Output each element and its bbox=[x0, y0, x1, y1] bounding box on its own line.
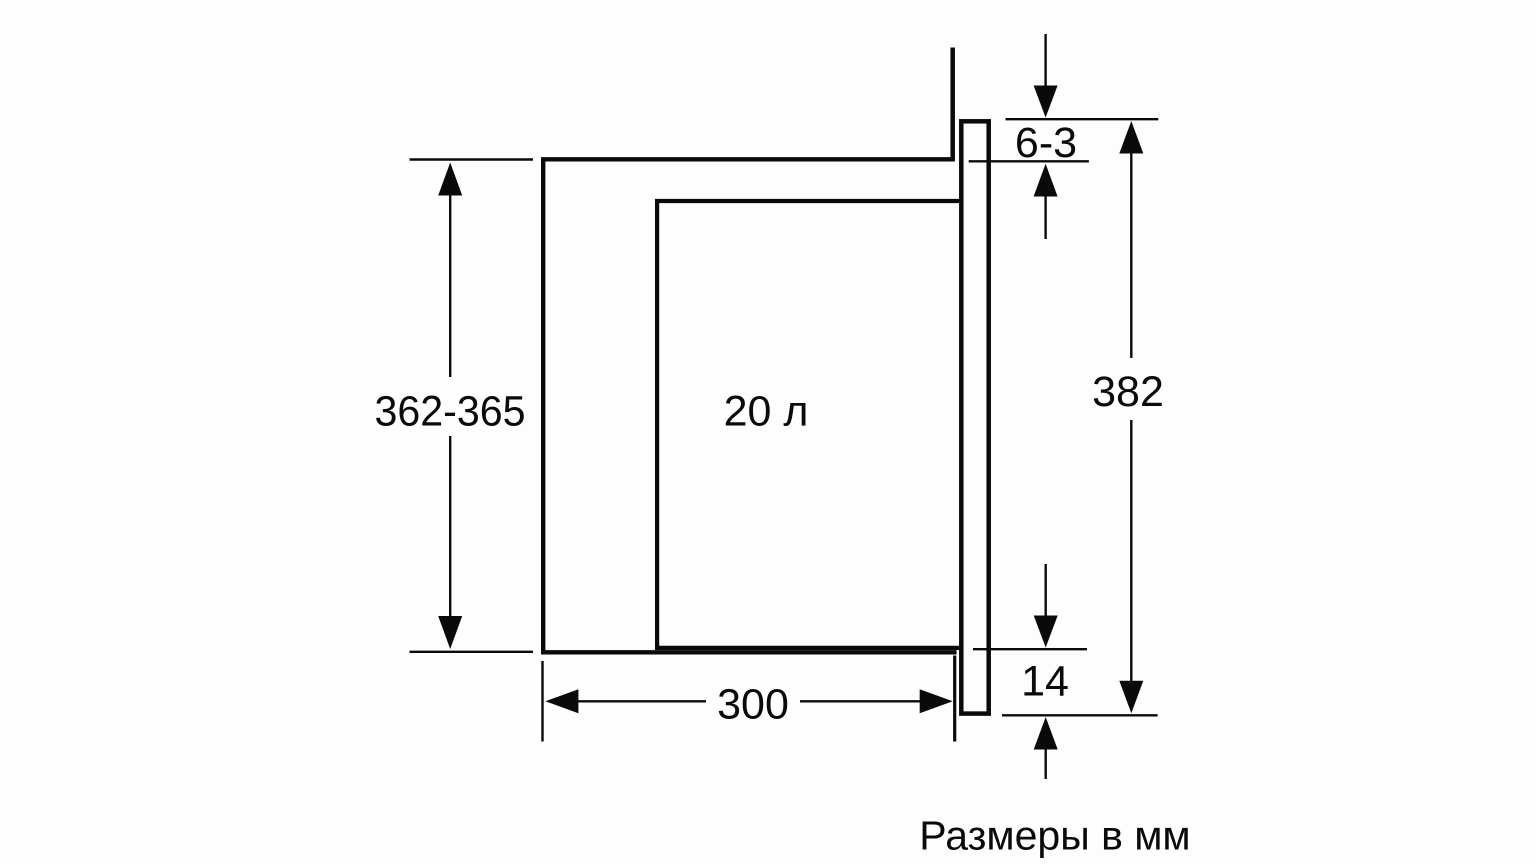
niche outline (outer box) bbox=[543, 159, 956, 652]
svg-text:300: 300 bbox=[717, 681, 789, 729]
svg-text:Размеры в мм: Размеры в мм bbox=[919, 813, 1190, 859]
reference line 14 bottom bbox=[1002, 714, 1158, 716]
svg-text:20 л: 20 л bbox=[724, 388, 809, 436]
svg-text:14: 14 bbox=[1021, 658, 1069, 706]
reference line 6-3 bottom bbox=[969, 160, 1089, 162]
arrow 14 bottom shaft bbox=[1044, 749, 1046, 779]
arrowhead 300 left bbox=[545, 689, 578, 713]
arrow 14 top shaft bbox=[1044, 564, 1046, 616]
arrow 6-3 bottom shaft bbox=[1044, 196, 1046, 239]
dimension line 362-365 lower shaft bbox=[449, 436, 451, 619]
extension line 300 left bbox=[541, 661, 543, 742]
dimension line 300 right shaft bbox=[800, 700, 921, 702]
svg-text:6-3: 6-3 bbox=[1015, 119, 1077, 167]
dimension line 382 upper shaft bbox=[1130, 153, 1132, 358]
dimension line 362-365 upper shaft bbox=[449, 193, 451, 377]
svg-text:362-365: 362-365 bbox=[375, 388, 526, 436]
arrowhead 362-365 down bbox=[438, 616, 462, 649]
tick bottom-left (362-365 lower reference) bbox=[410, 651, 534, 653]
arrowhead 300 right bbox=[920, 689, 953, 713]
arrowhead 382 up bbox=[1119, 121, 1143, 154]
svg-text:382: 382 bbox=[1092, 368, 1164, 416]
arrowhead 6-3 top down bbox=[1034, 86, 1058, 118]
cavity outline (inner box, 20 L oven) bbox=[657, 201, 963, 648]
dimension line 300 left shaft bbox=[577, 700, 706, 702]
arrowhead 382 down bbox=[1119, 681, 1143, 714]
arrowhead 362-365 up bbox=[438, 163, 462, 196]
arrowhead 14 down bbox=[1034, 616, 1058, 648]
tick top-left (362-365 upper reference) bbox=[410, 158, 534, 160]
arrowhead 6-3 bottom up bbox=[1034, 164, 1058, 197]
arrowhead 14 up bbox=[1034, 717, 1058, 750]
arrow 6-3 top shaft bbox=[1044, 34, 1046, 87]
reference line 14 top bbox=[973, 648, 1087, 650]
reference line 6-3 top bbox=[1006, 118, 1159, 120]
dimension line 382 lower shaft bbox=[1130, 420, 1132, 682]
extension line 300 right bbox=[953, 656, 956, 742]
front panel (vertical trim strip) bbox=[961, 121, 988, 713]
wall line above niche bbox=[950, 48, 955, 160]
